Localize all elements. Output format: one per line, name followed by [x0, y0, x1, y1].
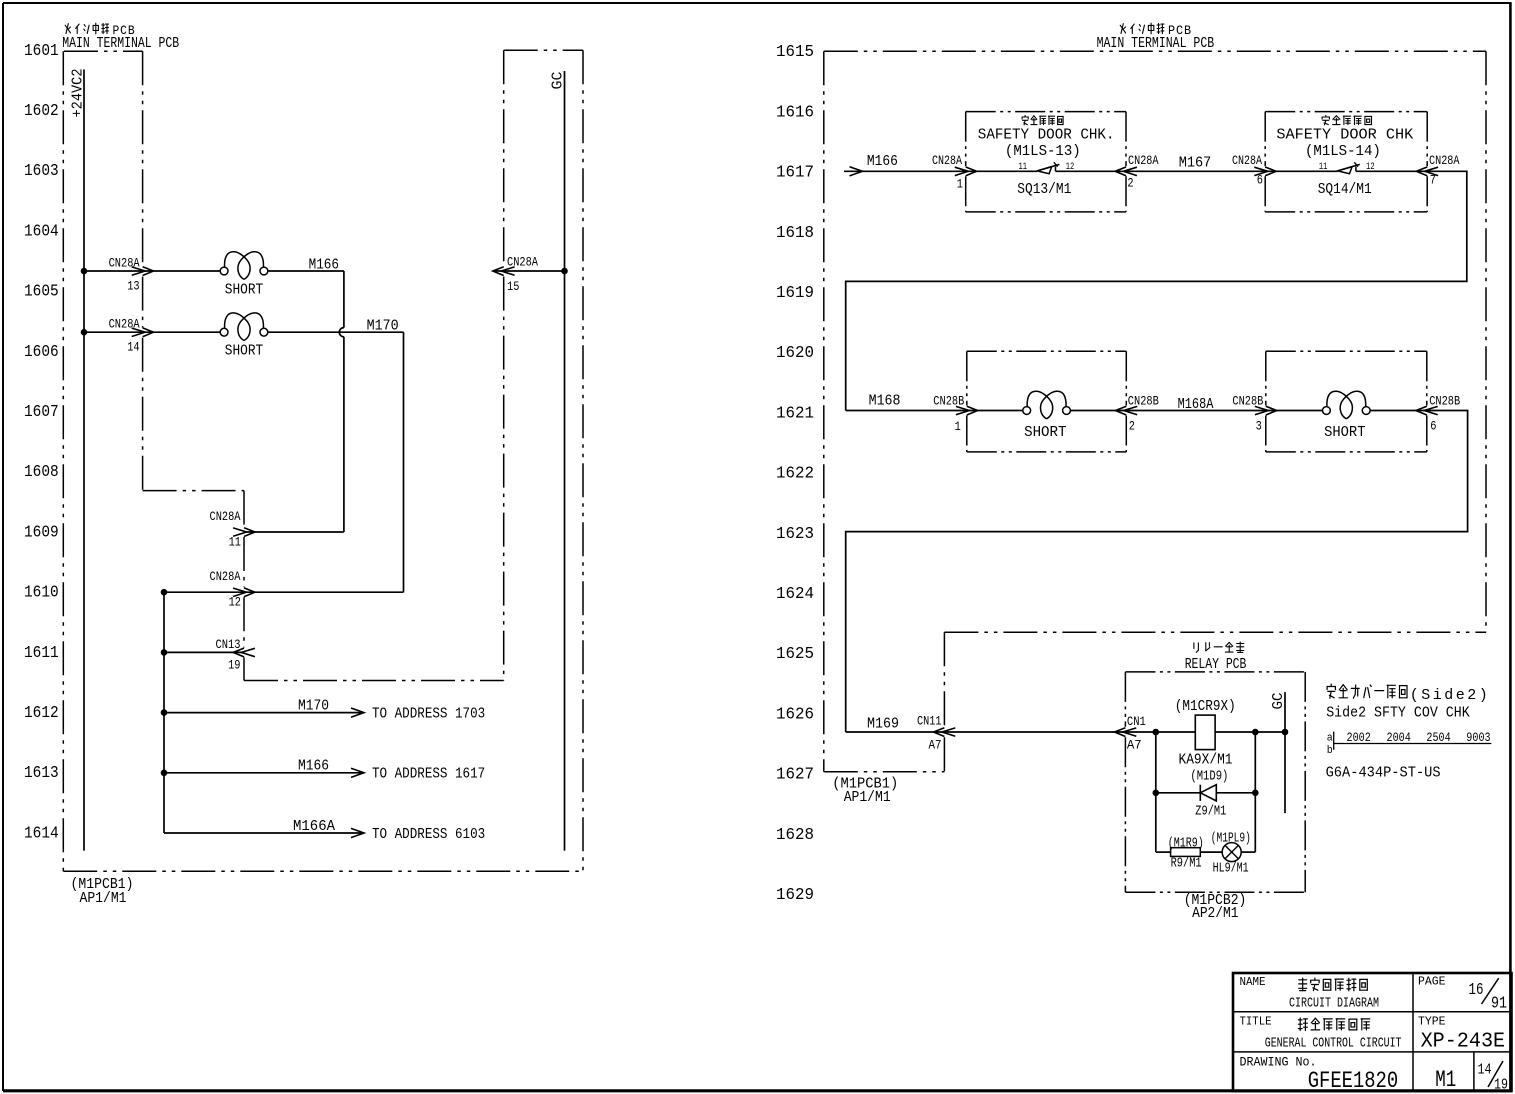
svg-text:M166: M166 [867, 154, 898, 170]
svg-text:1614: 1614 [24, 824, 59, 842]
svg-text:1606: 1606 [24, 343, 59, 361]
wire M168A [1126, 410, 1266, 412]
relay PCB dash outline [1125, 672, 1305, 892]
svg-text:1612: 1612 [24, 704, 59, 722]
svg-text:SAFETY DOOR CHK: SAFETY DOOR CHK [1276, 128, 1413, 144]
svg-text:CN28B: CN28B [933, 394, 964, 409]
svg-text:14: 14 [1478, 1063, 1492, 1079]
junction GC 1604 [561, 268, 568, 275]
short box1 dash outline [967, 351, 1127, 452]
svg-text:7: 7 [1430, 172, 1436, 187]
wire 1617 exit to 1619 loop [846, 171, 1467, 410]
svg-text:GC: GC [550, 72, 567, 90]
svg-text:M168: M168 [869, 394, 901, 410]
svg-text:2004: 2004 [1387, 730, 1411, 745]
safety door box1 dash outline [966, 112, 1126, 212]
svg-text:1629: 1629 [776, 886, 814, 904]
wire M168 [846, 410, 967, 412]
svg-text:19: 19 [228, 658, 240, 673]
source arrow M166 (from 1613) [844, 170, 966, 172]
short plug jumper (1604) [220, 267, 228, 275]
svg-text:M170: M170 [298, 699, 329, 715]
connector arrow CN28A pin12 [233, 588, 255, 597]
svg-text:1616: 1616 [776, 103, 814, 121]
svg-text:M1: M1 [1435, 1067, 1456, 1093]
svg-text:SAFETY DOOR CHK.: SAFETY DOOR CHK. [978, 128, 1115, 144]
svg-text:14: 14 [127, 340, 140, 355]
svg-text:AP1/M1: AP1/M1 [844, 790, 891, 806]
junction diode right [1252, 790, 1259, 797]
wire 1612 M170 to address 1703 [164, 712, 362, 714]
svg-text:+24VC2: +24VC2 [70, 69, 87, 118]
svg-text:CN28B: CN28B [1128, 394, 1159, 409]
svg-text:M168A: M168A [1178, 397, 1214, 413]
connector arrow CN28B pin1 [956, 406, 978, 415]
svg-text:CN28A: CN28A [507, 255, 538, 270]
svg-text:1621: 1621 [776, 404, 814, 422]
relay coil KA9X/M1 (M1CR9X) [1125, 731, 1195, 733]
svg-text:CN28A: CN28A [1429, 153, 1460, 168]
svg-text:11: 11 [1019, 161, 1028, 173]
resistor R9/M1 (M1R9) [1156, 851, 1171, 853]
connector arrow CN28B pin2 [1115, 406, 1137, 415]
svg-text:2002: 2002 [1347, 730, 1371, 745]
svg-text:2: 2 [1127, 176, 1133, 191]
GC rail (left) [564, 71, 566, 851]
svg-text:DRAWING No.: DRAWING No. [1240, 1056, 1317, 1070]
svg-text:9003: 9003 [1466, 730, 1490, 745]
left branch vertical [1155, 732, 1157, 852]
relay PCB リレー基板 label [1194, 642, 1244, 652]
svg-text:CIRCUIT DIAGRAM: CIRCUIT DIAGRAM [1289, 995, 1379, 1011]
svg-text:1604: 1604 [24, 222, 59, 240]
junction relay right [1252, 729, 1259, 736]
svg-text:AP1/M1: AP1/M1 [80, 891, 127, 907]
svg-text:SHORT: SHORT [1324, 425, 1366, 441]
diode Z9/M1 (M1D9) [1156, 792, 1201, 794]
svg-text:6: 6 [1257, 173, 1263, 188]
svg-text:1627: 1627 [776, 766, 814, 784]
svg-text:(M1PL9): (M1PL9) [1211, 831, 1251, 846]
+24VC2 power rail [83, 70, 85, 851]
connector arrow CN11 pin A7 [934, 728, 956, 737]
junction 1611 [161, 649, 168, 656]
safety door box2 dash outline [1265, 112, 1427, 212]
svg-text:12: 12 [229, 595, 241, 610]
wire 1621 exit to 1623 loop down to 1626 [846, 411, 1468, 733]
svg-text:(M1CR9X): (M1CR9X) [1175, 699, 1236, 715]
svg-text:12: 12 [1066, 161, 1075, 173]
svg-text:11: 11 [1319, 161, 1328, 173]
svg-text:CN13: CN13 [216, 637, 241, 652]
svg-text:R9/M1: R9/M1 [1171, 856, 1202, 871]
svg-text:(M1LS-13): (M1LS-13) [1005, 144, 1081, 160]
page border frame [3, 2, 1512, 4]
svg-text:RELAY PCB: RELAY PCB [1185, 657, 1247, 673]
wire M166 vertical with hop over M170 [343, 271, 345, 328]
svg-text:16: 16 [1469, 981, 1484, 1000]
connector arrow CN28A pin11 [233, 528, 255, 537]
connector arrow CN13 pin19 [233, 648, 255, 657]
junction on +24VC2 at 1604 [81, 268, 88, 275]
connector arrow CN28A pin6 [1254, 167, 1276, 176]
svg-text:XP-243E: XP-243E [1421, 1029, 1506, 1053]
svg-text:M169: M169 [867, 716, 899, 732]
box1 安全扉確認 label [1022, 115, 1063, 125]
svg-text:19: 19 [1494, 1078, 1508, 1094]
svg-text:(M1D9): (M1D9) [1190, 769, 1228, 784]
svg-text:(M1R9): (M1R9) [1168, 837, 1204, 852]
short plug jumper (1621 left) [967, 410, 1023, 412]
junction 1613 [161, 770, 168, 777]
svg-text:12: 12 [1366, 161, 1375, 173]
wire M169 to relay [846, 731, 1126, 733]
svg-text:13: 13 [127, 278, 139, 293]
svg-text:AP2/M1: AP2/M1 [1192, 906, 1238, 922]
lamp HL9/M1 (M1PL9) [1222, 843, 1241, 862]
svg-text:3: 3 [1256, 418, 1262, 433]
svg-text:TYPE: TYPE [1418, 1016, 1446, 1029]
svg-text:A7: A7 [1127, 738, 1142, 753]
svg-text:1607: 1607 [24, 403, 59, 421]
svg-text:2: 2 [1129, 418, 1135, 433]
wire 1614 M166A to address 6103 [164, 832, 362, 834]
svg-text:CN11: CN11 [917, 713, 942, 728]
svg-text:1628: 1628 [776, 826, 814, 844]
svg-text:SHORT: SHORT [225, 343, 263, 360]
svg-text:MAIN TERMINAL PCB: MAIN TERMINAL PCB [1097, 36, 1215, 52]
left PCB メイン中継PCB label [65, 23, 108, 34]
limit switch SQ13/M1 (M1LS-13) [966, 170, 1037, 172]
svg-text:CN28B: CN28B [1429, 394, 1460, 409]
wire 1613 M166 to address 1617 [164, 772, 362, 774]
svg-text:b: b [1327, 745, 1333, 757]
wire 1609 row to CN28A pin11 [244, 531, 344, 533]
svg-text:CN28B: CN28B [1232, 394, 1263, 409]
svg-text:CN28A: CN28A [1232, 153, 1262, 168]
right PCB メイン中継PCB label [1120, 23, 1164, 34]
svg-text:1609: 1609 [24, 523, 59, 541]
short plug jumper (1621 right) [1266, 410, 1323, 412]
wire 1611 row to CN13 pin19 [164, 651, 244, 653]
left PCB boundary (M1PCB1) dash-dot outline [64, 50, 143, 52]
wire M170 vertical [403, 332, 405, 592]
junction 1612 [161, 709, 168, 716]
svg-text:TO ADDRESS 1703: TO ADDRESS 1703 [372, 706, 485, 723]
right branch vertical [1254, 732, 1256, 852]
svg-text:A7: A7 [929, 737, 942, 752]
svg-text:1620: 1620 [776, 344, 814, 362]
annotation 安全カバー確認(Side2) [1327, 684, 1407, 698]
svg-text:(Side2): (Side2) [1410, 687, 1488, 704]
svg-text:CN28A: CN28A [210, 509, 241, 524]
svg-text:NAME: NAME [1240, 976, 1266, 989]
svg-text:HL9/M1: HL9/M1 [1213, 861, 1249, 876]
svg-text:91: 91 [1491, 995, 1507, 1014]
svg-text:CN1: CN1 [1127, 714, 1146, 729]
svg-text:1623: 1623 [776, 525, 814, 543]
svg-text:1626: 1626 [776, 705, 814, 723]
svg-text:CN28A: CN28A [210, 569, 241, 584]
connector arrow CN28A pin14 [132, 328, 154, 337]
svg-text:1619: 1619 [776, 284, 814, 302]
box2 安全扉確認 label [1322, 115, 1371, 125]
connector arrow CN28B pin3 [1255, 406, 1277, 415]
connector arrow CN1 pin A7 [1115, 728, 1137, 737]
svg-text:G6A-434P-ST-US: G6A-434P-ST-US [1326, 765, 1441, 781]
svg-text:1601: 1601 [24, 42, 59, 60]
svg-text:M167: M167 [1179, 155, 1212, 171]
svg-text:CN28A: CN28A [1128, 153, 1159, 168]
svg-text:1: 1 [957, 176, 963, 191]
svg-text:KA9X/M1: KA9X/M1 [1179, 752, 1233, 768]
connector arrow CN28A pin13 [132, 267, 154, 276]
svg-text:11: 11 [229, 534, 242, 549]
svg-text:1625: 1625 [776, 645, 814, 663]
svg-text:1624: 1624 [776, 585, 814, 603]
connector arrow CN28A pin15 [493, 267, 515, 276]
svg-text:TITLE: TITLE [1240, 1016, 1272, 1029]
short box2 dash outline [1266, 351, 1427, 452]
wire 1604 row: +24VC2 to SHORT to M166 [84, 270, 220, 272]
svg-text:GENERAL CONTROL CIRCUIT: GENERAL CONTROL CIRCUIT [1265, 1036, 1402, 1052]
connector arrow CN28A pin7 [1416, 167, 1438, 176]
connector arrow CN28A pin1 [955, 167, 977, 176]
svg-text:1615: 1615 [776, 43, 814, 61]
svg-text:SHORT: SHORT [225, 281, 263, 298]
svg-text:1618: 1618 [776, 224, 814, 242]
svg-text:15: 15 [507, 279, 519, 294]
svg-text:SHORT: SHORT [1024, 425, 1067, 441]
svg-text:2504: 2504 [1426, 730, 1450, 745]
svg-text:MAIN TERMINAL PCB: MAIN TERMINAL PCB [62, 36, 179, 52]
svg-text:1602: 1602 [24, 102, 59, 120]
svg-text:1610: 1610 [24, 584, 59, 602]
svg-text:a: a [1327, 732, 1333, 744]
svg-text:1603: 1603 [24, 162, 59, 180]
svg-text:M166: M166 [298, 759, 329, 775]
svg-text:1: 1 [955, 419, 961, 434]
svg-text:GFEE1820: GFEE1820 [1308, 1068, 1399, 1094]
junction GC [1282, 729, 1289, 736]
junction on +24VC2 at 1605 [81, 329, 88, 336]
svg-text:1605: 1605 [24, 283, 59, 301]
svg-text:M170: M170 [367, 319, 399, 335]
svg-text:GC: GC [1270, 693, 1287, 710]
title block frame [1233, 973, 1512, 1091]
svg-text:1613: 1613 [24, 764, 59, 782]
wire 1605 row: +24VC2 to SHORT to M170 [84, 331, 220, 333]
limit switch SQ14/M1 (M1LS-14) [1265, 170, 1337, 172]
svg-text:TO ADDRESS 1617: TO ADDRESS 1617 [372, 766, 485, 783]
svg-text:CN28A: CN28A [932, 153, 962, 168]
svg-text:M166: M166 [309, 257, 339, 273]
svg-text:1608: 1608 [24, 463, 59, 481]
wire CN28A pin15 to GC [493, 270, 565, 272]
connector arrow CN28B pin6 [1416, 406, 1438, 415]
svg-text:CN28A: CN28A [109, 255, 140, 270]
junction relay left [1153, 729, 1160, 736]
svg-text:PAGE: PAGE [1418, 976, 1446, 989]
svg-text:6: 6 [1430, 418, 1436, 433]
svg-text:1622: 1622 [776, 465, 814, 483]
svg-text:SQ13/M1: SQ13/M1 [1017, 182, 1071, 198]
junction diode left [1153, 790, 1160, 797]
svg-text:1617: 1617 [776, 164, 814, 182]
svg-text:TO ADDRESS 6103: TO ADDRESS 6103 [372, 826, 485, 843]
right PCB boundary (M1PCB1) dash-dot outline [824, 50, 1486, 52]
svg-text:SQ14/M1: SQ14/M1 [1318, 182, 1372, 198]
svg-text:Side2 SFTY COV CHK: Side2 SFTY COV CHK [1326, 706, 1470, 722]
svg-text:Z9/M1: Z9/M1 [1195, 804, 1226, 819]
bus vertical x=164 [163, 592, 165, 833]
junction 1610 [161, 589, 168, 596]
GC rail (relay) [1284, 692, 1286, 813]
short plug jumper (1605) [220, 328, 228, 336]
svg-text:(M1LS-14): (M1LS-14) [1305, 144, 1381, 160]
svg-text:CN28A: CN28A [109, 317, 140, 332]
svg-text:M166A: M166A [293, 819, 335, 835]
svg-text:1611: 1611 [24, 644, 59, 662]
connector arrow CN28A pin2 [1115, 167, 1137, 176]
wire M167 [1126, 170, 1265, 172]
wire 1610 row to CN28A pin12 [164, 591, 404, 593]
